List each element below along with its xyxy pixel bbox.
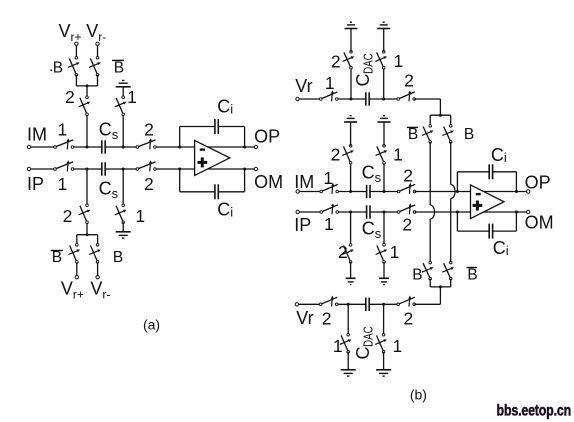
svg-text:C: C [353, 347, 373, 360]
svg-text:Ci: Ci [217, 200, 233, 220]
svg-text:Vr: Vr [295, 76, 312, 96]
svg-text:1: 1 [393, 144, 403, 164]
svg-text:2: 2 [65, 87, 75, 107]
svg-text:2: 2 [322, 309, 332, 329]
svg-text:B: B [412, 267, 422, 284]
svg-text:1: 1 [58, 174, 68, 194]
svg-text:OM: OM [254, 172, 283, 192]
svg-text:OP: OP [525, 172, 551, 192]
svg-text:Cs: Cs [362, 163, 382, 186]
svg-text:Vr-: Vr- [86, 21, 106, 44]
svg-text:2: 2 [331, 144, 341, 164]
svg-text:Vr: Vr [296, 308, 313, 328]
svg-text:(a): (a) [143, 317, 160, 333]
svg-text:2: 2 [63, 206, 73, 226]
svg-text:bbs.eetop.cn: bbs.eetop.cn [497, 401, 571, 419]
svg-text:2: 2 [144, 174, 154, 194]
svg-text:B: B [464, 126, 474, 143]
svg-text:Ci: Ci [217, 97, 233, 117]
svg-text:C: C [353, 74, 373, 87]
svg-text:Ci: Ci [493, 238, 509, 258]
svg-text:IM: IM [294, 172, 314, 192]
svg-text:1: 1 [323, 168, 333, 188]
svg-text:1: 1 [324, 214, 334, 234]
svg-text:B: B [408, 126, 418, 143]
svg-text:Ci: Ci [491, 145, 507, 165]
svg-text:DAC: DAC [360, 326, 375, 347]
svg-text:DAC: DAC [360, 53, 375, 74]
svg-text:1: 1 [325, 73, 335, 93]
svg-text:Vr+: Vr+ [61, 279, 84, 302]
svg-text:B: B [113, 249, 123, 266]
svg-text:2: 2 [338, 242, 348, 262]
svg-text:2: 2 [404, 70, 414, 90]
svg-text:2: 2 [402, 215, 412, 235]
svg-text:1: 1 [135, 206, 145, 226]
svg-text:B: B [114, 60, 124, 77]
svg-text:1: 1 [58, 120, 68, 140]
svg-text:Cs: Cs [99, 120, 119, 143]
svg-text:B: B [53, 60, 63, 77]
svg-text:1: 1 [393, 336, 403, 356]
svg-text:IP: IP [294, 215, 311, 235]
svg-text:2: 2 [331, 51, 341, 71]
svg-text:IP: IP [27, 174, 44, 194]
svg-text:B: B [52, 249, 62, 266]
svg-text:2: 2 [404, 309, 414, 329]
svg-text:Vr+: Vr+ [59, 21, 82, 44]
svg-text:IM: IM [27, 125, 47, 145]
svg-text:2: 2 [144, 120, 154, 140]
svg-text:1: 1 [394, 51, 404, 71]
svg-text:(b): (b) [410, 387, 427, 403]
svg-text:OP: OP [254, 126, 280, 146]
svg-text:OM: OM [525, 213, 554, 233]
svg-text:B: B [467, 267, 477, 284]
svg-text:Vr-: Vr- [90, 279, 110, 302]
svg-text:1: 1 [127, 87, 137, 107]
svg-text:1: 1 [333, 336, 343, 356]
svg-text:1: 1 [390, 242, 400, 262]
svg-text:2: 2 [403, 166, 413, 186]
svg-text:Cs: Cs [362, 218, 382, 241]
svg-text:Cs: Cs [99, 179, 119, 202]
